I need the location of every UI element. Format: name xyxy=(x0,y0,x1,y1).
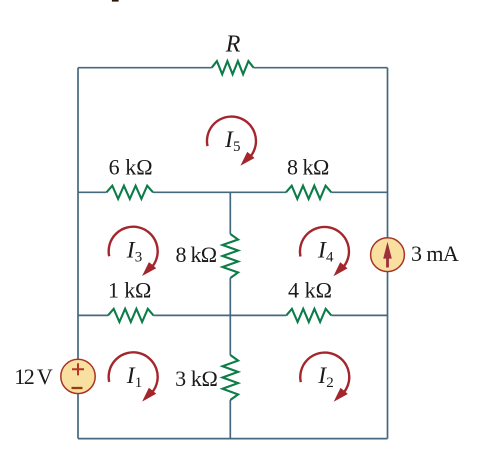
wire: middle vertical, 3k to bottom xyxy=(229,400,231,439)
voltage source minus sign xyxy=(72,387,83,389)
wire: row3 right segment xyxy=(331,314,387,316)
mesh current loop I4 arc xyxy=(300,227,349,267)
svg-text:5: 5 xyxy=(233,139,241,155)
mesh current loop I3 arc xyxy=(109,227,158,267)
resistor 3 kOhm vertical xyxy=(223,355,239,400)
svg-text:3: 3 xyxy=(135,249,143,265)
wire: right frame, top of 3mA source xyxy=(387,68,389,238)
cropped text fragment at top edge xyxy=(112,0,119,2)
wire: middle vertical, row2 to 8k resistor xyxy=(229,192,231,234)
wire: row3 left segment xyxy=(78,314,108,316)
svg-text:6 kΩ: 6 kΩ xyxy=(109,155,153,180)
mesh current loop I2 arrowhead xyxy=(334,388,348,402)
svg-text:3 mA: 3 mA xyxy=(411,241,459,266)
resistor 4 kOhm xyxy=(286,309,331,322)
wire: row3 middle segment xyxy=(154,314,287,316)
resistor R (zigzag) xyxy=(212,61,254,74)
svg-text:2: 2 xyxy=(326,375,334,391)
wire: bottom frame xyxy=(78,438,388,440)
mesh current loop I3 arrowhead xyxy=(142,262,156,276)
voltage source 12V circle xyxy=(61,359,95,393)
resistor 1 kOhm xyxy=(108,309,154,322)
resistor 8 kOhm top xyxy=(286,186,331,199)
mesh current loop I1 arrowhead xyxy=(142,388,156,402)
mesh current loop I4 arrowhead xyxy=(333,262,347,276)
resistor 8 kOhm middle vertical xyxy=(223,234,239,278)
svg-text:4: 4 xyxy=(326,250,334,266)
wire: middle vertical, between resistors xyxy=(229,278,231,355)
svg-text:12 V: 12 V xyxy=(14,364,53,389)
mesh current loop I1 arc xyxy=(109,352,158,392)
wire: top frame segment left of R xyxy=(78,67,212,69)
svg-text:1 kΩ: 1 kΩ xyxy=(108,278,151,303)
svg-text:3 kΩ: 3 kΩ xyxy=(175,366,218,391)
svg-text:8 kΩ: 8 kΩ xyxy=(176,242,218,267)
wire: top frame segment right of R xyxy=(254,67,388,69)
svg-text:4 kΩ: 4 kΩ xyxy=(288,278,332,303)
current source 3mA circle xyxy=(371,238,405,272)
wire: left frame, top of 12V source xyxy=(77,68,79,360)
mesh current loop I5 arrowhead xyxy=(240,152,254,166)
wire: right frame, below 3mA source xyxy=(387,272,389,439)
mesh current loop I2 arc xyxy=(300,353,349,393)
svg-text:R: R xyxy=(225,31,241,57)
wire: left frame, below 12V source xyxy=(77,394,79,439)
wire: row2 left segment xyxy=(78,191,107,193)
resistor 6 kOhm xyxy=(107,186,154,199)
wire: row2 middle segment xyxy=(153,191,286,193)
current source arrow (up) xyxy=(386,256,389,268)
mesh current loop I5 arc xyxy=(207,117,256,157)
svg-text:1: 1 xyxy=(135,375,143,391)
voltage source plus sign xyxy=(72,363,84,375)
wire: row2 right segment xyxy=(331,191,387,193)
svg-text:8 kΩ: 8 kΩ xyxy=(287,155,329,180)
